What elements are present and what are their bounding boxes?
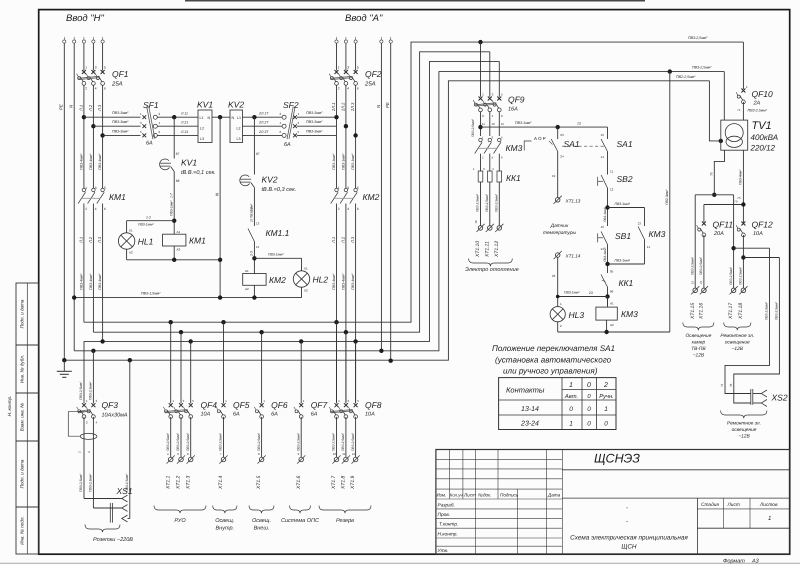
svg-text:71: 71 bbox=[720, 383, 724, 387]
svg-text:А1: А1 bbox=[177, 230, 181, 234]
svg-text:Л.1: Л.1 bbox=[331, 237, 336, 244]
svg-text:Ремонтное эл.: Ремонтное эл. bbox=[720, 333, 754, 339]
QF3 differential loop bbox=[68, 412, 84, 437]
wires to QF4 bbox=[170, 322, 172, 403]
svg-text:85: 85 bbox=[610, 270, 614, 274]
svg-text:2Л.1: 2Л.1 bbox=[331, 103, 336, 112]
wire HL3 to coil node bbox=[558, 296, 608, 298]
svg-text:2Л.1Т: 2Л.1Т bbox=[258, 112, 269, 116]
junction KM1 coil return on N bbox=[218, 258, 222, 262]
wire N control drop bbox=[219, 117, 221, 297]
brace электро отопление bbox=[469, 259, 513, 267]
node HL3 branch bbox=[605, 294, 609, 298]
svg-text:Лист: Лист bbox=[727, 502, 740, 508]
svg-text:ПВ3-1мм²: ПВ3-1мм² bbox=[268, 252, 284, 256]
svg-text:XS1: XS1 bbox=[116, 486, 133, 496]
svg-text:ПВ3-2,5мм²: ПВ3-2,5мм² bbox=[332, 432, 336, 451]
wire control return bbox=[557, 322, 559, 332]
svg-text:75: 75 bbox=[737, 196, 741, 200]
lamp HL2 bbox=[301, 258, 303, 271]
QF9 outgoing wires bbox=[480, 112, 482, 136]
svg-text:Пров.: Пров. bbox=[438, 512, 451, 518]
node secondary return bbox=[712, 193, 716, 197]
svg-text:76: 76 bbox=[729, 383, 733, 387]
svg-text:КК1: КК1 bbox=[506, 173, 521, 183]
svg-text:ТВ-ПВ: ТВ-ПВ bbox=[691, 346, 706, 352]
svg-text:N: N bbox=[208, 116, 211, 120]
wire QF3 N feed bbox=[92, 351, 94, 404]
svg-text:86: 86 bbox=[610, 290, 614, 294]
svg-text:0: 0 bbox=[587, 421, 591, 428]
svg-text:ПВ3-2,5мм²: ПВ3-2,5мм² bbox=[89, 381, 93, 400]
svg-text:23: 23 bbox=[560, 133, 564, 137]
svg-text:Л.31: Л.31 bbox=[180, 130, 188, 134]
svg-text:освещение: освещение bbox=[732, 428, 757, 433]
svg-text:0: 0 bbox=[604, 421, 608, 428]
svg-text:Авт.: Авт. bbox=[564, 394, 578, 400]
svg-text:КМ2: КМ2 bbox=[363, 192, 380, 202]
title block grid bbox=[436, 458, 562, 460]
TV1 secondary right bbox=[742, 150, 744, 223]
svg-text:XS2: XS2 bbox=[771, 393, 788, 403]
svg-text:ПВ3-4мм²: ПВ3-4мм² bbox=[739, 169, 743, 185]
svg-text:Х1: Х1 bbox=[304, 266, 308, 270]
svg-text:А3: А3 bbox=[751, 559, 760, 565]
svg-text:2: 2 bbox=[338, 207, 340, 211]
svg-text:А1: А1 bbox=[245, 269, 249, 273]
svg-text:1: 1 bbox=[338, 66, 340, 70]
svg-text:6А: 6А bbox=[233, 412, 240, 418]
wire L1 left bbox=[83, 43, 85, 70]
svg-text:ПВ3-1мм²: ПВ3-1мм² bbox=[603, 247, 607, 262]
terminals XT1.10-12 bbox=[478, 226, 483, 231]
svg-text:ХТ1.3: ХТ1.3 bbox=[185, 475, 191, 490]
svg-text:Л.2: Л.2 bbox=[340, 236, 345, 244]
wire 2Л.2 bbox=[345, 43, 347, 70]
wire coil return bus bbox=[74, 297, 301, 299]
svg-text:Инв. № подл.: Инв. № подл. bbox=[20, 516, 25, 545]
svg-text:Схема электрическая принципиал: Схема электрическая принципиальная bbox=[570, 535, 688, 542]
wire branch to HL2 bbox=[254, 257, 301, 259]
svg-text:ПВ3-2,5мм²: ПВ3-2,5мм² bbox=[89, 473, 93, 492]
svg-text:10А: 10А bbox=[365, 412, 375, 418]
svg-text:4: 4 bbox=[347, 207, 349, 211]
wire to QF5 bbox=[223, 322, 225, 403]
svg-text:КМ3: КМ3 bbox=[649, 229, 666, 239]
node SA1 auto branch bbox=[556, 125, 560, 129]
svg-text:87: 87 bbox=[256, 152, 260, 156]
svg-text:QF8: QF8 bbox=[365, 400, 382, 410]
svg-text:Изм.: Изм. bbox=[437, 493, 447, 498]
svg-text:ПВ3-3мм²: ПВ3-3мм² bbox=[112, 111, 129, 115]
svg-text:14: 14 bbox=[601, 155, 605, 159]
aux contact KM1.1 bbox=[248, 229, 254, 242]
svg-text:Утв.: Утв. bbox=[438, 548, 449, 554]
wire return riser bbox=[669, 72, 671, 332]
svg-text:5: 5 bbox=[104, 186, 106, 190]
svg-text:L3: L3 bbox=[237, 137, 241, 141]
circuit breaker QF5 bbox=[222, 403, 226, 407]
svg-text:ХТ1.7: ХТ1.7 bbox=[331, 475, 337, 490]
svg-text:ПВ3-2,5мм²: ПВ3-2,5мм² bbox=[79, 473, 83, 492]
svg-text:3: 3 bbox=[347, 186, 349, 190]
wire QF11 feed bbox=[704, 204, 744, 206]
svg-text:Л.1: Л.1 bbox=[78, 237, 83, 244]
svg-text:освещение: освещение bbox=[725, 341, 750, 346]
svg-text:2Л.2: 2Л.2 bbox=[340, 102, 345, 112]
wire HL1 KM1 return bbox=[127, 259, 221, 261]
wire SA1 to SB2 bbox=[607, 152, 609, 175]
svg-text:Лист: Лист bbox=[463, 493, 476, 498]
wire return to XT1.17 bbox=[733, 195, 735, 288]
svg-text:А О Р: А О Р bbox=[534, 136, 546, 141]
terminals XT1.7 XT1.8 XT1.9 bbox=[334, 457, 339, 462]
svg-text:КМ1: КМ1 bbox=[109, 192, 126, 202]
wires to QF9 bbox=[480, 42, 482, 97]
RCD breaker QF3 bbox=[82, 403, 86, 407]
svg-text:Внеш.: Внеш. bbox=[254, 526, 270, 532]
table SA1 grid bbox=[499, 378, 616, 430]
timer contact KV1 bbox=[160, 159, 170, 170]
svg-text:23: 23 bbox=[552, 274, 556, 278]
svg-text:Подпись: Подпись bbox=[500, 493, 519, 498]
brace Освещ Внутр bbox=[213, 506, 237, 514]
svg-text:ПВ3-4мм²: ПВ3-4мм² bbox=[351, 273, 355, 290]
svg-text:Инв. № дубл.: Инв. № дубл. bbox=[20, 355, 25, 383]
bus L3 bbox=[84, 61, 499, 341]
circuit breaker QF11 bbox=[702, 222, 706, 226]
svg-text:6: 6 bbox=[104, 207, 106, 211]
svg-text:Подп. и дата: Подп. и дата bbox=[20, 299, 25, 328]
svg-text:ПВ3-1мм²: ПВ3-1мм² bbox=[603, 207, 607, 222]
circuit breaker QF7 bbox=[299, 403, 303, 407]
svg-text:11: 11 bbox=[610, 170, 613, 174]
svg-text:ХТ1.9: ХТ1.9 bbox=[350, 475, 356, 490]
svg-text:ХТ1.12: ХТ1.12 bbox=[494, 241, 500, 258]
svg-text:20А: 20А bbox=[713, 231, 724, 237]
svg-text:ПВ3-2,5мм²: ПВ3-2,5мм² bbox=[765, 301, 769, 320]
SA1 mechanical link dashed bbox=[562, 145, 605, 147]
stop button SB2 bbox=[601, 175, 607, 188]
svg-text:13: 13 bbox=[256, 222, 260, 226]
svg-text:Л.21: Л.21 bbox=[180, 121, 188, 125]
svg-text:71: 71 bbox=[737, 108, 741, 112]
svg-text:SA1: SA1 bbox=[617, 139, 633, 149]
svg-text:21: 21 bbox=[699, 280, 703, 284]
svg-text:ХТ1.2: ХТ1.2 bbox=[176, 475, 182, 490]
svg-text:25А: 25А bbox=[364, 81, 376, 88]
wires to XS2 bbox=[725, 248, 770, 393]
svg-text:HL2: HL2 bbox=[313, 275, 329, 285]
svg-text:ПВ3-1мм²: ПВ3-1мм² bbox=[615, 259, 631, 263]
wire PE right bbox=[390, 43, 392, 361]
circuit breaker QF4 bbox=[169, 403, 173, 407]
svg-text:ПВ3-2,5мм²: ПВ3-2,5мм² bbox=[296, 432, 300, 451]
svg-text:HL1: HL1 bbox=[138, 237, 154, 247]
svg-text:ПВ3-1мм²: ПВ3-1мм² bbox=[332, 153, 336, 170]
svg-text:L1: L1 bbox=[237, 116, 241, 120]
svg-text:QF2: QF2 bbox=[365, 69, 382, 79]
svg-text:~12В: ~12В bbox=[732, 346, 744, 352]
svg-text:6А: 6А bbox=[146, 141, 153, 147]
svg-text:2( ПВ3-1мм²: 2( ПВ3-1мм² bbox=[250, 203, 254, 223]
svg-text:ПВ3-2,5мм²: ПВ3-2,5мм² bbox=[690, 256, 694, 275]
svg-text:QF11: QF11 bbox=[713, 220, 734, 230]
svg-text:Ввод "Н": Ввод "Н" bbox=[66, 13, 104, 24]
svg-text:16А: 16А bbox=[508, 107, 518, 113]
svg-text:1: 1 bbox=[604, 406, 608, 413]
brace РУО bbox=[154, 506, 206, 514]
brace socket group bbox=[85, 525, 120, 533]
svg-text:-: - bbox=[626, 519, 628, 525]
svg-text:4: 4 bbox=[347, 87, 349, 91]
svg-text:КМ2: КМ2 bbox=[269, 275, 286, 285]
svg-text:QF7: QF7 bbox=[311, 400, 328, 410]
circuit breaker QF10 bbox=[742, 42, 744, 89]
feeder A input terminals bbox=[336, 37, 338, 40]
svg-text:ПВ3-3мм²: ПВ3-3мм² bbox=[306, 111, 323, 115]
svg-text:3: 3 bbox=[95, 186, 97, 190]
circuit breaker QF2 bbox=[335, 70, 339, 74]
aux contact KM3 selfhold bbox=[644, 208, 646, 227]
svg-text:КМ1: КМ1 bbox=[189, 236, 206, 246]
svg-text:2Л.3: 2Л.3 bbox=[350, 102, 355, 112]
node branch XS2 b bbox=[741, 255, 745, 259]
svg-text:87: 87 bbox=[176, 152, 180, 156]
svg-text:КК1: КК1 bbox=[619, 278, 634, 288]
svg-text:75: 75 bbox=[710, 172, 714, 176]
svg-text:400кВА: 400кВА bbox=[751, 133, 779, 142]
svg-text:Л.3: Л.3 bbox=[97, 104, 102, 112]
svg-text:2: 2 bbox=[85, 87, 87, 91]
svg-text:KV1: KV1 bbox=[181, 158, 197, 168]
wire L3 left bbox=[102, 43, 104, 70]
svg-text:ПВ3-2,5мм²: ПВ3-2,5мм² bbox=[476, 193, 480, 212]
svg-text:KV2: KV2 bbox=[262, 175, 278, 185]
svg-text:SA1: SA1 bbox=[564, 139, 580, 149]
terminal XT1.13 bbox=[557, 152, 559, 198]
svg-text:13: 13 bbox=[637, 222, 641, 226]
svg-text:1: 1 bbox=[85, 66, 87, 70]
svg-text:Л.2: Л.2 bbox=[88, 236, 93, 244]
svg-text:6: 6 bbox=[104, 87, 106, 91]
svg-text:Н.контр.: Н.контр. bbox=[438, 532, 458, 538]
svg-text:ПВ2-3мм²: ПВ2-3мм² bbox=[665, 189, 669, 205]
svg-text:ХТ1.15: ХТ1.15 bbox=[690, 303, 696, 320]
svg-text:SF2: SF2 bbox=[283, 100, 299, 110]
svg-text:QF5: QF5 bbox=[233, 400, 250, 410]
circuit breaker QF12 bbox=[741, 222, 745, 226]
wire QF3 phase feed bbox=[83, 341, 85, 403]
wire bus N to TV1 primary bbox=[723, 72, 725, 121]
svg-text:ПВ3-2,5мм²: ПВ3-2,5мм² bbox=[495, 193, 499, 212]
svg-text:25А: 25А bbox=[111, 81, 123, 88]
svg-text:L1: L1 bbox=[200, 116, 204, 120]
svg-text:А2: А2 bbox=[610, 323, 614, 327]
switch SA1 auto contact bbox=[557, 127, 559, 139]
transformer TV1 bbox=[721, 120, 748, 150]
svg-text:Разраб.: Разраб. bbox=[438, 503, 455, 509]
svg-text:ПВ3-2,5мм²: ПВ3-2,5мм² bbox=[729, 266, 733, 285]
tap junctions to SF1 bbox=[82, 115, 86, 119]
svg-text:Резерв: Резерв bbox=[336, 518, 354, 524]
svg-text:ПВ3-2,5мм²: ПВ3-2,5мм² bbox=[166, 432, 170, 451]
lamp HL1 bbox=[126, 221, 128, 233]
wire KV2 to KM1.1 bbox=[253, 188, 255, 227]
svg-text:ХТ1.18: ХТ1.18 bbox=[738, 303, 744, 320]
svg-text:ХТ1.10: ХТ1.10 bbox=[475, 241, 481, 258]
circuit breaker QF1 bbox=[82, 70, 86, 74]
svg-text:1-2: 1-2 bbox=[146, 215, 151, 219]
svg-text:QF4: QF4 bbox=[201, 400, 218, 410]
wire to QF6 bbox=[261, 332, 263, 403]
svg-text:tВ.В.=0,1 сек.: tВ.В.=0,1 сек. bbox=[181, 170, 216, 176]
svg-text:10А: 10А bbox=[201, 412, 211, 418]
svg-text:13: 13 bbox=[600, 225, 604, 229]
QF7 outgoing wire bbox=[300, 417, 302, 457]
svg-text:QF3: QF3 bbox=[102, 400, 119, 410]
QF6 outgoing wire bbox=[261, 417, 263, 457]
svg-text:А2: А2 bbox=[245, 287, 249, 291]
svg-text:24: 24 bbox=[560, 155, 564, 159]
svg-text:Х2: Х2 bbox=[304, 289, 308, 293]
switch SA1 manual contact bbox=[607, 127, 609, 139]
svg-text:23: 23 bbox=[588, 291, 593, 295]
lamp HL3 bbox=[550, 307, 565, 322]
svg-text:QF9: QF9 bbox=[508, 95, 525, 105]
svg-text:3: 3 bbox=[347, 66, 349, 70]
wires QF3 to XS1 bbox=[83, 417, 85, 499]
wire PE left bbox=[63, 43, 65, 360]
svg-text:Л.3: Л.3 bbox=[350, 236, 355, 244]
brace Освещ Внеш bbox=[249, 506, 274, 514]
bus L1 bbox=[84, 42, 744, 322]
svg-text:ПВ3-2,5мм²: ПВ3-2,5мм² bbox=[471, 118, 475, 137]
svg-text:1: 1 bbox=[85, 186, 87, 190]
svg-text:температуры: температуры bbox=[543, 231, 576, 236]
node branch XS2 a bbox=[731, 246, 735, 250]
wire return bus 12V bbox=[695, 194, 733, 196]
wire to QF7 bbox=[300, 341, 302, 403]
svg-text:Контакты: Контакты bbox=[506, 386, 545, 395]
svg-text:220/12: 220/12 bbox=[750, 143, 776, 152]
svg-text:КМ3: КМ3 bbox=[506, 143, 523, 153]
wire QF11 out to XT1.16 bbox=[703, 235, 705, 288]
svg-text:ХТ1.5: ХТ1.5 bbox=[256, 475, 262, 490]
svg-text:Ввод "А": Ввод "А" bbox=[345, 13, 383, 24]
svg-text:Подп. и дата: Подп. и дата bbox=[20, 459, 25, 488]
svg-text:88: 88 bbox=[176, 179, 180, 183]
svg-text:12: 12 bbox=[610, 188, 614, 192]
svg-text:6А: 6А bbox=[271, 412, 278, 418]
svg-text:Кол.уч: Кол.уч bbox=[450, 493, 464, 498]
wire to KM3 aux bbox=[608, 207, 645, 209]
wires KV2 to SF2 bbox=[243, 116, 283, 118]
svg-text:ПВ3-2,5мм²: ПВ3-2,5мм² bbox=[485, 193, 489, 212]
terminal XT1.14 bbox=[555, 253, 560, 258]
svg-text:ХТ1.6: ХТ1.6 bbox=[296, 475, 302, 490]
wire SB2 to node bbox=[607, 188, 609, 226]
svg-text:11: 11 bbox=[482, 122, 485, 126]
svg-text:QF10: QF10 bbox=[752, 89, 774, 99]
svg-text:А1: А1 bbox=[610, 301, 614, 305]
svg-text:ПВ3-2,5мм²: ПВ3-2,5мм² bbox=[775, 301, 779, 320]
svg-text:РУО: РУО bbox=[174, 518, 186, 524]
svg-text:или ручного управления): или ручного управления) bbox=[503, 367, 598, 376]
svg-text:6: 6 bbox=[357, 207, 359, 211]
svg-text:5: 5 bbox=[104, 66, 106, 70]
svg-text:14: 14 bbox=[256, 245, 260, 249]
svg-text:Х2: Х2 bbox=[129, 251, 133, 255]
node KV2 timer tap bbox=[252, 115, 256, 119]
circuit breaker QF6 bbox=[260, 403, 264, 407]
timer contact KV2 bbox=[240, 175, 250, 186]
svg-text:1: 1 bbox=[768, 515, 771, 522]
svg-text:Положение переключателя SA1: Положение переключателя SA1 bbox=[492, 344, 615, 353]
terminals XT1.1 XT1.2 XT1.3 bbox=[168, 457, 173, 462]
svg-text:ХТ1.11: ХТ1.11 bbox=[484, 241, 490, 258]
wire 2Л.3 bbox=[355, 43, 357, 70]
svg-text:4: 4 bbox=[95, 87, 97, 91]
svg-text:5: 5 bbox=[357, 186, 359, 190]
svg-text:ПВ3-3мм²: ПВ3-3мм² bbox=[306, 129, 323, 133]
feeder N input terminals bbox=[63, 37, 65, 40]
svg-text:11: 11 bbox=[342, 452, 345, 456]
svg-text:ПВ3-4мм²: ПВ3-4мм² bbox=[341, 273, 345, 290]
wire N left bbox=[73, 43, 75, 351]
circuit breaker QF9 bbox=[479, 97, 483, 101]
svg-text:ПВ3-3мм²: ПВ3-3мм² bbox=[306, 120, 323, 124]
svg-text:Взам. инв. №: Взам. инв. № bbox=[20, 403, 25, 431]
wire branch to HL1 bbox=[127, 220, 175, 222]
brace освещение камер bbox=[683, 323, 714, 331]
svg-text:QF12: QF12 bbox=[752, 220, 774, 230]
svg-text:2Л.3Т: 2Л.3Т bbox=[258, 130, 269, 134]
svg-text:ПВ3-2,5мм²: ПВ3-2,5мм² bbox=[219, 432, 223, 451]
svg-text:ПВ3-2,5мм²: ПВ3-2,5мм² bbox=[257, 432, 261, 451]
wire return to XT1.15 bbox=[694, 195, 696, 288]
brace ремонтное освещение bbox=[724, 323, 751, 331]
node KM2 coil branch bbox=[252, 256, 256, 260]
svg-text:ПВ3-2,5мм²: ПВ3-2,5мм² bbox=[351, 432, 355, 451]
node start branch bbox=[605, 205, 609, 209]
terminal ХТ1.5 bbox=[259, 457, 264, 462]
title block frame bbox=[436, 450, 790, 555]
svg-text:Электро отопление: Электро отопление bbox=[465, 267, 519, 273]
svg-text:15: 15 bbox=[690, 280, 694, 284]
svg-text:~12В: ~12В bbox=[693, 353, 705, 359]
bus N bbox=[74, 72, 724, 351]
wire PE to ground bbox=[63, 360, 65, 371]
contactor KM1 main contacts bbox=[82, 188, 85, 191]
svg-text:2А: 2А bbox=[753, 101, 761, 107]
wire 2Л.1 bbox=[336, 43, 338, 70]
svg-text:ПВ3-2,5мм²: ПВ3-2,5мм² bbox=[748, 109, 768, 113]
svg-text:6А: 6А bbox=[284, 142, 291, 148]
wire KM3 aux return bbox=[608, 263, 645, 265]
svg-text:ПВ3-1,5мм²: ПВ3-1,5мм² bbox=[141, 292, 161, 296]
svg-text:Дата: Дата bbox=[547, 493, 561, 498]
svg-text:SB1: SB1 bbox=[615, 231, 631, 241]
svg-text:ХТ1.8: ХТ1.8 bbox=[341, 475, 347, 490]
svg-text:ПВ3-2,5мм²: ПВ3-2,5мм² bbox=[688, 36, 708, 40]
svg-text:ПВ3-2,5мм²: ПВ3-2,5мм² bbox=[739, 266, 743, 285]
wire to KV1 contact bbox=[173, 117, 175, 158]
bus PE bbox=[64, 81, 709, 360]
svg-text:1-7: 1-7 bbox=[169, 193, 173, 198]
svg-text:ПВ3-1мм²: ПВ3-1мм² bbox=[138, 223, 154, 227]
svg-text:6А: 6А bbox=[311, 412, 318, 418]
